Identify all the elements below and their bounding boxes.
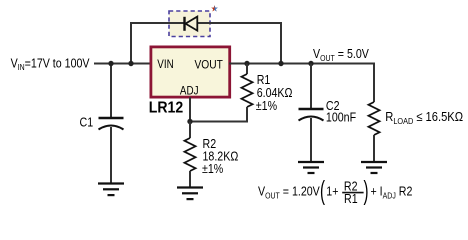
pin label VOUT <box>195 59 223 72</box>
ground (RLOAD) <box>361 162 387 173</box>
svg-text:VIN=17V to 100V: VIN=17V to 100V <box>11 55 90 72</box>
junction VOUT/C2 <box>308 61 313 66</box>
C1 value label <box>80 114 94 129</box>
pin label ADJ <box>180 85 199 98</box>
R1 value labels <box>256 72 293 113</box>
svg-text:+ IADJ R2: + IADJ R2 <box>371 183 413 200</box>
svg-text:(: ( <box>320 175 325 206</box>
svg-text:VOUT = 1.20V: VOUT = 1.20V <box>258 183 320 200</box>
wire RLOAD drop <box>373 63 375 103</box>
pin label VIN <box>157 58 173 71</box>
diode D1 <box>185 17 198 31</box>
svg-text:1+: 1+ <box>326 183 338 198</box>
svg-text:100nF: 100nF <box>326 110 356 125</box>
junction input/diode <box>128 61 133 66</box>
svg-text:±1%: ±1% <box>256 98 278 113</box>
wire input bus <box>94 63 152 65</box>
svg-text:): ) <box>364 175 369 206</box>
part label LR12 <box>149 99 183 117</box>
regulator U1 LR12 body <box>151 47 230 97</box>
capacitor C2 <box>299 64 324 163</box>
ground (C1) <box>98 184 124 196</box>
wire top left segment <box>130 22 184 24</box>
svg-text:VIN: VIN <box>157 58 173 71</box>
R2 value labels <box>202 136 238 176</box>
svg-text:VOUT: VOUT <box>195 59 223 72</box>
RLOAD value label <box>385 109 463 126</box>
junction VOUT/R1 <box>244 61 249 66</box>
resistor R2 <box>185 122 196 188</box>
svg-text:ADJ: ADJ <box>180 85 199 98</box>
svg-text:C1: C1 <box>80 114 94 129</box>
wire R1 bottom to ADJ node <box>189 121 248 123</box>
junction VOUT/diode <box>278 61 283 66</box>
diode note asterisk <box>211 5 218 11</box>
svg-text:LR12: LR12 <box>149 99 183 117</box>
node VOUT label <box>313 46 369 63</box>
svg-text:±1%: ±1% <box>202 161 224 176</box>
ground (C2) <box>298 162 324 173</box>
junction input/C1 <box>108 61 113 66</box>
wire diode right riser <box>280 22 282 64</box>
wire ADJ pin <box>189 97 191 123</box>
wire diode left riser <box>130 23 132 64</box>
node VIN label <box>11 55 90 72</box>
resistor R1 <box>242 64 253 123</box>
svg-text:R1: R1 <box>344 191 358 206</box>
ground (R2) <box>177 188 203 200</box>
junction ADJ node <box>187 119 192 124</box>
wire VOUT bus <box>229 63 375 65</box>
diode D1 dashed box <box>169 11 210 37</box>
wire C1 riser <box>110 64 112 119</box>
C2 value labels <box>326 98 356 125</box>
formula VOUT = 1.20V(1 + R2/R1) + IADJ R2 <box>258 175 412 207</box>
resistor RLOAD <box>369 102 380 162</box>
svg-text:VOUT = 5.0V: VOUT = 5.0V <box>313 46 369 63</box>
capacitor C1 <box>99 118 124 184</box>
svg-text:RLOAD ≤ 16.5KΩ: RLOAD ≤ 16.5KΩ <box>385 109 463 126</box>
wire top right segment <box>197 22 283 24</box>
